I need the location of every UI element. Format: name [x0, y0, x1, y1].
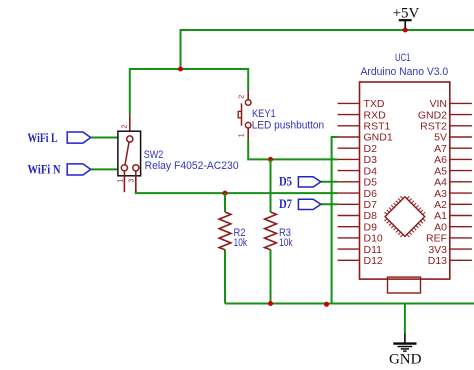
- svg-text:2: 2: [121, 125, 128, 129]
- relay pin 2 stub: [129, 115, 131, 136]
- svg-text:D7: D7: [364, 199, 378, 211]
- svg-text:D5: D5: [279, 174, 292, 188]
- wire to KEY1 top: [247, 68, 249, 91]
- wire WiFi N to relay: [91, 168, 119, 170]
- svg-text:2: 2: [239, 95, 246, 99]
- svg-text:D6: D6: [364, 188, 378, 200]
- svg-text:REF: REF: [426, 233, 447, 245]
- node junction rail GND: [324, 302, 329, 307]
- ground GND symbol: [393, 334, 416, 352]
- wire drop from top rail: [180, 29, 182, 69]
- svg-text:+5V: +5V: [393, 6, 420, 22]
- svg-text:1: 1: [118, 179, 125, 183]
- svg-text:A7: A7: [434, 143, 447, 155]
- wire KEY1 bottom to D3: [248, 140, 337, 160]
- net flag WiFi N: [67, 164, 91, 175]
- svg-text:D4: D4: [364, 165, 378, 177]
- svg-text:5V: 5V: [434, 132, 447, 144]
- svg-text:A6: A6: [434, 154, 447, 166]
- wire R3 branch down: [270, 159, 272, 212]
- UC1 right pin names: [418, 98, 447, 267]
- svg-text:D11: D11: [364, 244, 383, 256]
- svg-text:A5: A5: [434, 165, 447, 177]
- UC1 chip drawing: [380, 192, 430, 242]
- svg-text:A0: A0: [434, 221, 447, 233]
- svg-text:Relay F4052-AC230: Relay F4052-AC230: [145, 160, 239, 172]
- wire GND drop: [404, 304, 406, 334]
- svg-text:3V3: 3V3: [428, 244, 447, 256]
- wire +5V top rail: [181, 29, 474, 31]
- svg-text:D8: D8: [364, 210, 378, 222]
- relay SW2: [118, 115, 239, 193]
- IC UC1 Arduino Nano V3.0: [360, 52, 450, 279]
- UC1 right pin stubs: [450, 103, 472, 260]
- net flag D7: [298, 199, 320, 209]
- key pin 2 stub: [247, 91, 249, 100]
- wire bottom ground rail: [225, 303, 474, 305]
- node junction KEY/R3: [268, 157, 273, 162]
- svg-text:D10: D10: [364, 233, 383, 245]
- svg-text:VIN: VIN: [429, 98, 447, 110]
- svg-text:RST1: RST1: [364, 121, 391, 133]
- svg-text:GND2: GND2: [418, 109, 447, 121]
- wire R2 bottom: [224, 250, 226, 304]
- svg-text:D13: D13: [428, 255, 447, 267]
- svg-text:D7: D7: [279, 197, 292, 211]
- svg-text:TXD: TXD: [364, 98, 385, 110]
- relay pin 3 stub: [135, 171, 137, 192]
- svg-text:3: 3: [128, 179, 135, 183]
- key pin 1 stub: [247, 128, 249, 140]
- relay lever: [125, 142, 129, 164]
- svg-text:D2: D2: [364, 143, 378, 155]
- net flag D5: [298, 177, 320, 187]
- svg-text:RST2: RST2: [420, 121, 447, 133]
- svg-text:LED pushbutton: LED pushbutton: [252, 120, 325, 132]
- wire GND1 to rail: [332, 137, 338, 304]
- svg-text:10k: 10k: [279, 237, 293, 249]
- UC1 left pin stubs: [338, 103, 360, 260]
- key actuator cap: [238, 111, 241, 117]
- key contact circle top: [245, 100, 251, 106]
- svg-text:10k: 10k: [234, 237, 248, 249]
- svg-text:A4: A4: [434, 177, 447, 189]
- relay contact circle bottom right: [133, 165, 139, 171]
- wire WiFi L to relay: [91, 137, 119, 139]
- svg-text:GND1: GND1: [364, 132, 393, 144]
- svg-text:D5: D5: [364, 177, 378, 189]
- node junction at 180,69: [178, 67, 183, 72]
- wire D5 flag to pin: [321, 181, 338, 183]
- svg-text:A3: A3: [434, 188, 447, 200]
- relay pin 1 stub: [123, 171, 125, 192]
- svg-text:A1: A1: [434, 210, 447, 222]
- wire horizontal y69: [130, 68, 248, 70]
- key contact circle bottom: [245, 122, 251, 128]
- node junction at +5V: [403, 28, 408, 33]
- svg-text:UC1: UC1: [395, 52, 411, 64]
- resistor R2: [219, 212, 247, 250]
- wire relay pin3 to D6: [136, 191, 338, 194]
- svg-text:GND: GND: [389, 351, 422, 367]
- svg-text:KEY1: KEY1: [252, 108, 276, 120]
- wire to relay pin2: [129, 68, 131, 115]
- node junction R3 bottom: [268, 301, 273, 306]
- relay contact circle top: [127, 136, 133, 142]
- svg-text:A2: A2: [434, 199, 447, 211]
- svg-text:WiFi L: WiFi L: [28, 131, 58, 145]
- net flag WiFi L: [67, 132, 91, 143]
- wire R2 branch down: [224, 193, 226, 212]
- pushbutton KEY1: [238, 91, 324, 140]
- svg-text:D3: D3: [364, 154, 378, 166]
- power +5V symbol: [399, 20, 412, 30]
- wire R3 bottom: [270, 250, 272, 304]
- wire D7 flag to pin: [321, 203, 338, 205]
- svg-text:D9: D9: [364, 221, 378, 233]
- key actuator bar: [241, 103, 243, 125]
- resistor R3: [265, 212, 293, 250]
- node junction R2 top: [223, 191, 228, 196]
- svg-text:WiFi N: WiFi N: [28, 163, 61, 177]
- svg-text:RXD: RXD: [364, 109, 387, 121]
- relay box: [118, 131, 141, 176]
- UC1 left pin names: [364, 98, 393, 267]
- svg-text:1: 1: [239, 133, 246, 137]
- relay contact circle bottom left: [121, 165, 127, 171]
- UC1 usb connector rect: [388, 277, 421, 293]
- svg-text:Arduino Nano V3.0: Arduino Nano V3.0: [361, 66, 449, 78]
- svg-text:D12: D12: [364, 255, 383, 267]
